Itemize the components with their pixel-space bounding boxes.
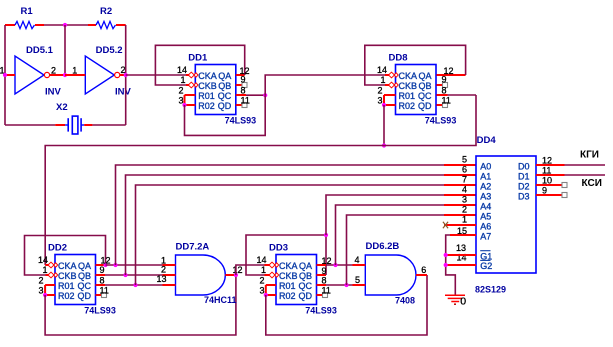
svg-text:A1: A1 xyxy=(480,171,491,181)
ground 0 label xyxy=(460,296,466,308)
svg-text:CKB: CKB xyxy=(399,81,418,91)
svg-text:A0: A0 xyxy=(480,161,491,171)
svg-text:14: 14 xyxy=(177,65,187,75)
svg-text:1: 1 xyxy=(380,75,385,85)
svg-text:QA: QA xyxy=(418,71,431,81)
svg-text:QD: QD xyxy=(418,101,432,111)
svg-text:A4: A4 xyxy=(480,201,491,211)
wire DD2 QA row to DD7.2A input 1 xyxy=(106,264,176,266)
svg-text:74LS93: 74LS93 xyxy=(305,306,337,316)
svg-text:R01: R01 xyxy=(58,281,75,291)
svg-text:9: 9 xyxy=(100,265,105,275)
DD1 QA to CKB feedback loop wire xyxy=(155,45,244,85)
DD3 pin 8 number xyxy=(322,276,327,286)
DD6.2B designator label xyxy=(366,241,400,252)
junction G1 on ground net xyxy=(444,253,448,257)
wire R1 right to R2 left along top xyxy=(44,24,88,26)
svg-text:2: 2 xyxy=(259,276,264,286)
DD3 pin 9 number xyxy=(322,266,327,276)
and-gate DD7.2A 74HC11 xyxy=(163,255,236,295)
DD8 pin 14 number xyxy=(377,65,387,75)
DD5.2 pin 1 number xyxy=(72,66,77,76)
svg-text:6: 6 xyxy=(462,165,467,175)
junction DD2 QB to A1 riser xyxy=(123,273,127,277)
DD8 pin 1 number xyxy=(380,75,385,85)
DD1 pin 12 number xyxy=(240,66,250,76)
resistor R1 label xyxy=(21,6,34,17)
svg-text:A2: A2 xyxy=(480,181,491,191)
svg-text:2: 2 xyxy=(462,205,467,215)
counter DD8 74LS93 body xyxy=(396,65,437,115)
DD8 CKB clock pin diamonds xyxy=(389,82,399,88)
svg-text:8: 8 xyxy=(100,275,105,285)
DD3 pin 11 number xyxy=(322,286,331,296)
DD3 QD pin 11 stub and no-connect square xyxy=(317,293,328,298)
svg-text:QA: QA xyxy=(78,261,91,271)
DD2 pin 12 number xyxy=(101,256,111,266)
svg-text:13: 13 xyxy=(156,274,166,284)
svg-text:R01: R01 xyxy=(399,91,416,101)
DD4 pin 4 number for A3 xyxy=(462,185,467,195)
DD2 QD pin 11 stub and no-connect square xyxy=(96,293,107,298)
DD6.2B pin 4 number xyxy=(354,255,359,265)
DD1 QB pin 9 stub and no-connect square xyxy=(236,83,247,88)
svg-text:1: 1 xyxy=(42,265,47,275)
wire DD1 QC up and over to DD8 CKA xyxy=(265,75,389,95)
svg-text:7: 7 xyxy=(462,175,467,185)
DD1 designator label xyxy=(188,53,208,64)
svg-text:3: 3 xyxy=(377,96,382,106)
DD2 QB pin 9 wire to DD7.2A input 2 xyxy=(96,274,176,276)
junction DD8 reset node xyxy=(382,103,386,107)
wire right vertical from R2 down through DD5.2 output to crystal xyxy=(125,25,127,125)
svg-text:КСИ: КСИ xyxy=(582,178,602,189)
counter DD2 74LS93 body xyxy=(55,255,96,305)
DD3 pin 14 number xyxy=(256,255,266,265)
wire A3 net DD3 QB to DD4 A3 xyxy=(326,195,476,235)
svg-text:CKB: CKB xyxy=(279,271,298,281)
DD2 CKA clock pin diamonds xyxy=(48,262,58,268)
svg-text:11: 11 xyxy=(442,96,451,106)
DD4 pin 7 number for A2 xyxy=(462,175,467,185)
DD6.2B pin 5 number xyxy=(355,275,360,285)
DD8 QA to CKB feedback loop wire xyxy=(365,45,466,85)
svg-text:74LS93: 74LS93 xyxy=(225,116,257,126)
DD1 pin 14 number xyxy=(177,65,187,75)
DD3 CKB clock pin diamonds xyxy=(269,272,279,278)
svg-text:2: 2 xyxy=(377,86,382,96)
DD3 pin 12 number xyxy=(322,256,332,266)
svg-text:11: 11 xyxy=(241,96,250,106)
svg-text:QD: QD xyxy=(218,101,232,111)
svg-text:7408: 7408 xyxy=(395,295,415,305)
DD8 pin 8 number xyxy=(442,86,447,96)
junction DD3 QC to A5 riser xyxy=(344,283,348,287)
svg-text:10: 10 xyxy=(542,175,552,185)
junction DD2 QA to A0 riser xyxy=(113,263,117,267)
svg-text:R02: R02 xyxy=(198,101,215,111)
DD7.2A pin 2 number xyxy=(161,265,166,275)
DD2 pin 11 number xyxy=(100,286,109,296)
svg-text:11: 11 xyxy=(542,165,551,175)
DD7.2A pin 1 number xyxy=(161,256,166,266)
wire A0 net DD2 QA to DD4 A0 xyxy=(116,165,477,265)
svg-text:DD1: DD1 xyxy=(188,53,208,64)
svg-text:QB: QB xyxy=(299,271,312,281)
wire DD8 reset down to bus xyxy=(383,105,385,146)
svg-text:74HC11: 74HC11 xyxy=(204,295,237,305)
svg-text:QB: QB xyxy=(418,81,431,91)
svg-text:14: 14 xyxy=(38,255,48,265)
svg-text:1: 1 xyxy=(180,75,185,85)
junction DD5.2 output node xyxy=(124,73,128,77)
svg-text:8: 8 xyxy=(322,276,327,286)
DD1 reset pins R01 R02 tie xyxy=(185,95,196,105)
junction DD2 reset node xyxy=(43,293,47,297)
wire A5 net DD3 QC to DD4 A5 xyxy=(347,215,477,285)
counter DD3 74LS93 body xyxy=(276,255,317,305)
DD8 designator label xyxy=(389,53,408,64)
svg-text:CKA: CKA xyxy=(58,261,77,271)
svg-text:QC: QC xyxy=(218,91,232,101)
DD7.2A designator label xyxy=(176,242,210,253)
svg-text:2: 2 xyxy=(161,265,166,275)
DD1 value label 74LS93 xyxy=(225,116,257,126)
svg-text:2: 2 xyxy=(51,66,56,76)
svg-text:1: 1 xyxy=(462,215,467,225)
prom DD4 82S129 body xyxy=(476,156,536,273)
svg-text:DD7.2A: DD7.2A xyxy=(176,242,210,253)
DD8 pin 9 number xyxy=(442,74,447,84)
svg-text:4: 4 xyxy=(462,185,467,195)
DD8 QB pin 9 stub and no-connect square xyxy=(437,83,448,88)
DD4 pin 12 number xyxy=(542,155,552,165)
svg-text:9: 9 xyxy=(442,74,447,84)
DD4 D2 pin 10 stub and no-connect square xyxy=(536,183,567,188)
svg-text:9: 9 xyxy=(241,74,246,84)
wire A1 net DD2 QB to DD4 A1 xyxy=(126,175,477,275)
svg-text:2: 2 xyxy=(178,86,183,96)
svg-text:QD: QD xyxy=(299,291,313,301)
svg-text:12: 12 xyxy=(101,256,111,266)
svg-text:8: 8 xyxy=(442,86,447,96)
DD4 pin 10 number xyxy=(542,175,552,185)
DD6.2B pin 6 number xyxy=(421,265,426,275)
DD4 pin 11 number xyxy=(542,165,551,175)
svg-text:12: 12 xyxy=(542,155,552,165)
DD1 pin 11 number xyxy=(241,96,250,106)
junction between R1 and R2 feeding inverter node xyxy=(63,23,67,27)
DD4 A6 pin stub with no-ERC cross xyxy=(443,222,476,228)
svg-text:D0: D0 xyxy=(518,161,530,171)
svg-text:A6: A6 xyxy=(480,221,491,231)
DD1 CKB clock pin diamonds xyxy=(188,82,198,88)
DD8 pin 3 number xyxy=(377,96,382,106)
DD1 pin 9 number xyxy=(241,74,246,84)
svg-text:QA: QA xyxy=(218,71,231,81)
counter DD1 74LS93 body xyxy=(195,65,236,115)
svg-text:DD2: DD2 xyxy=(48,243,67,254)
DD4 A7 G1 G2 ground net wire xyxy=(446,235,476,295)
junction G2 on ground net xyxy=(444,263,448,267)
DD5.2 pin 2 number xyxy=(121,65,126,75)
svg-text:G2: G2 xyxy=(480,261,492,271)
KGI net label xyxy=(580,150,599,161)
DD2 pin 8 number xyxy=(100,275,105,285)
DD4 pin 9 number xyxy=(542,185,547,195)
svg-text:QB: QB xyxy=(78,271,91,281)
svg-text:CKB: CKB xyxy=(58,271,77,281)
svg-text:3: 3 xyxy=(462,195,467,205)
crystal X2 label xyxy=(56,102,68,113)
DD8 pin 12 number xyxy=(444,66,454,76)
DD7.2A pin 12 number xyxy=(233,265,243,275)
svg-text:6: 6 xyxy=(421,265,426,275)
DD2 value label 74LS93 xyxy=(84,306,116,316)
svg-text:A7: A7 xyxy=(480,231,491,241)
DD3 pin 1 number xyxy=(261,265,266,275)
wire DD1 reset to DD1 QC net xyxy=(185,95,266,135)
junction DD2 QA loop tap xyxy=(103,263,107,267)
wire DD3 reset loop to DD6.2B output xyxy=(266,275,427,335)
svg-text:9: 9 xyxy=(542,185,547,195)
junction DD3 QA to A4 riser xyxy=(333,263,337,267)
svg-text:R02: R02 xyxy=(58,291,75,301)
svg-text:D2: D2 xyxy=(518,181,530,191)
and-gate DD6.2B 7408 xyxy=(353,255,428,295)
wire from top junction down to DD5.1 output node xyxy=(64,25,66,75)
svg-text:QB: QB xyxy=(218,81,231,91)
svg-text:R02: R02 xyxy=(399,101,416,111)
DD5.1 designator label xyxy=(26,45,54,56)
svg-text:0: 0 xyxy=(460,296,466,308)
DD5.1 INV label xyxy=(45,86,62,97)
DD4 pin 2 number for A5 xyxy=(462,205,467,215)
DD3 pin 3 number xyxy=(259,286,264,296)
svg-text:CKA: CKA xyxy=(198,71,217,81)
wire left vertical from R1 down to crystal loop xyxy=(4,25,6,125)
DD1 QD pin 11 stub and no-connect square xyxy=(236,103,247,108)
svg-text:INV: INV xyxy=(45,86,62,97)
svg-text:74LS93: 74LS93 xyxy=(84,306,116,316)
DD1 pin 2 number xyxy=(178,86,183,96)
svg-text:X2: X2 xyxy=(56,102,68,113)
DD1 pin 3 number xyxy=(178,96,183,106)
DD4 pin 5 number for A0 xyxy=(462,155,467,165)
svg-text:QA: QA xyxy=(299,261,312,271)
DD1 CKA clock pin diamonds xyxy=(188,72,198,78)
svg-text:74LS93: 74LS93 xyxy=(425,116,457,126)
svg-text:DD6.2B: DD6.2B xyxy=(366,241,400,252)
DD3 QB to CKB feedback loop wire xyxy=(246,235,326,275)
svg-text:R01: R01 xyxy=(279,281,296,291)
DD4 pin 6 number for A1 xyxy=(462,165,467,175)
DD7.2A pin 13 number xyxy=(156,274,166,284)
DD8 pin 11 number xyxy=(442,96,451,106)
svg-text:INV: INV xyxy=(115,86,132,97)
DD6.2B value label 7408 xyxy=(395,295,415,305)
svg-text:DD5.2: DD5.2 xyxy=(96,45,123,56)
DD3 QC pin 8 wire to DD6.2B input 5 xyxy=(317,284,366,286)
DD2 CKB clock pin diamonds xyxy=(48,272,58,278)
svg-text:QD: QD xyxy=(78,291,92,301)
svg-text:4: 4 xyxy=(354,255,359,265)
svg-text:CKA: CKA xyxy=(399,71,418,81)
DD1 QC pin 8 wire to junction xyxy=(236,94,265,96)
svg-text:3: 3 xyxy=(259,286,264,296)
wire D0 output to KGI xyxy=(536,164,605,166)
wire D1 output to KSI xyxy=(536,174,605,176)
DD5.1 pin 1 number xyxy=(0,66,5,76)
wire A2 net DD2 QC to DD4 A2 xyxy=(136,185,477,285)
DD2 designator label xyxy=(48,243,67,254)
node DD1 QC junction xyxy=(263,93,267,97)
wire DD8 QC bus down-left-down to DD2 CKA xyxy=(45,95,476,265)
DD2 pin 9 number xyxy=(100,265,105,275)
svg-text:QC: QC xyxy=(418,91,432,101)
svg-text:R1: R1 xyxy=(21,6,34,17)
svg-text:КГИ: КГИ xyxy=(580,150,599,161)
svg-text:DD5.1: DD5.1 xyxy=(26,45,54,56)
wire DD2 reset loop to DD7.2A output xyxy=(45,275,236,335)
DD7.2A value label 74HC11 xyxy=(204,295,237,305)
svg-text:CKA: CKA xyxy=(279,261,298,271)
DD2 pin 2 number xyxy=(38,276,43,286)
svg-text:DD8: DD8 xyxy=(389,53,408,64)
DD4 D3 pin 9 stub and no-connect square xyxy=(536,193,567,198)
DD3 reset pins R01 R02 tie xyxy=(266,285,276,295)
DD1 pin 8 number xyxy=(241,86,246,96)
wire DD3 QA row to DD6.2B input 4 xyxy=(317,264,366,266)
DD1 pin 1 number xyxy=(180,75,185,85)
junction DD3 QB loop to A3 riser xyxy=(324,233,328,237)
DD3 CKA clock pin diamonds xyxy=(269,262,279,268)
svg-text:5: 5 xyxy=(462,155,467,165)
DD8 QC pin 8 wire toward DD4 column xyxy=(437,94,477,96)
DD8 value label 74LS93 xyxy=(425,116,457,126)
svg-text:D3: D3 xyxy=(518,191,530,201)
wire DD7.2A output up to DD3 CKA xyxy=(236,265,270,275)
DD8 reset pins R01 R02 tie xyxy=(384,95,396,105)
DD3 designator label xyxy=(269,243,288,254)
svg-text:14: 14 xyxy=(256,255,266,265)
svg-text:14: 14 xyxy=(456,252,466,262)
svg-text:14: 14 xyxy=(377,65,387,75)
crystal X2 xyxy=(5,116,126,134)
wire DD5.2 output to DD1 CKA pin 14 xyxy=(126,74,189,76)
svg-text:9: 9 xyxy=(322,266,327,276)
DD2 reset pins R01 R02 tie xyxy=(45,285,55,295)
DD8 CKA clock pin diamonds xyxy=(389,72,399,78)
junction at DD5.1 input on left rail xyxy=(3,73,7,77)
inverter DD5.1 xyxy=(5,56,66,94)
DD3 pin 2 number xyxy=(259,276,264,286)
DD4 pin 13 number xyxy=(456,243,466,253)
DD4 pin 3 number for A4 xyxy=(462,195,467,205)
DD2 QC pin 8 wire to DD7.2A input 13 xyxy=(96,284,176,286)
resistor R1 xyxy=(5,21,44,28)
DD4 value label 82S129 xyxy=(475,285,506,295)
DD8 pin 2 number xyxy=(377,86,382,96)
svg-text:A3: A3 xyxy=(480,191,491,201)
wire A4 net DD3 QA to DD4 A4 xyxy=(336,205,477,265)
svg-text:5: 5 xyxy=(355,275,360,285)
svg-text:11: 11 xyxy=(100,286,109,296)
svg-text:R02: R02 xyxy=(279,291,296,301)
DD4 pin 15 number for A7 xyxy=(457,226,467,236)
junction DD5.1 output node xyxy=(63,73,67,77)
junction DD8 reset on QC bus xyxy=(382,143,386,147)
svg-text:2: 2 xyxy=(38,276,43,286)
svg-text:8: 8 xyxy=(241,86,246,96)
DD2 pin 1 number xyxy=(42,265,47,275)
DD2 pin 3 number xyxy=(38,286,43,296)
svg-text:CKB: CKB xyxy=(198,81,217,91)
svg-text:3: 3 xyxy=(38,286,43,296)
svg-text:QC: QC xyxy=(78,281,92,291)
KSI net label xyxy=(582,178,602,189)
junction DD3 reset node xyxy=(264,293,268,297)
svg-text:A5: A5 xyxy=(480,211,491,221)
resistor R2 label xyxy=(100,6,112,17)
DD4 pin 1 number for A6 xyxy=(462,215,467,225)
DD4 pin 14 number xyxy=(456,252,466,262)
DD2 QA to CKB feedback loop wire xyxy=(25,236,106,276)
DD4 designator label xyxy=(477,135,497,146)
DD5.2 designator label xyxy=(96,45,123,56)
DD5.2 INV label xyxy=(115,86,132,97)
DD3 value label 74LS93 xyxy=(305,306,337,316)
junction DD1 reset node xyxy=(182,103,186,107)
svg-text:QC: QC xyxy=(299,281,313,291)
svg-text:82S129: 82S129 xyxy=(475,285,506,295)
ground symbol xyxy=(445,295,465,304)
DD5.1 pin 2 number xyxy=(51,66,56,76)
svg-text:DD3: DD3 xyxy=(269,243,288,254)
junction DD7.2A output node xyxy=(234,273,238,277)
svg-text:D1: D1 xyxy=(518,171,530,181)
svg-text:DD4: DD4 xyxy=(477,135,497,146)
DD8 QD pin 11 stub and no-connect square xyxy=(437,103,448,108)
svg-text:R01: R01 xyxy=(198,91,215,101)
svg-text:R2: R2 xyxy=(100,6,112,17)
svg-text:1: 1 xyxy=(72,66,77,76)
inverter DD5.2 xyxy=(65,56,126,94)
junction DD2 QC to A2 riser xyxy=(133,283,137,287)
svg-text:11: 11 xyxy=(322,286,331,296)
DD2 pin 14 number xyxy=(38,255,48,265)
resistor R2 xyxy=(88,21,126,28)
svg-text:1: 1 xyxy=(261,265,266,275)
